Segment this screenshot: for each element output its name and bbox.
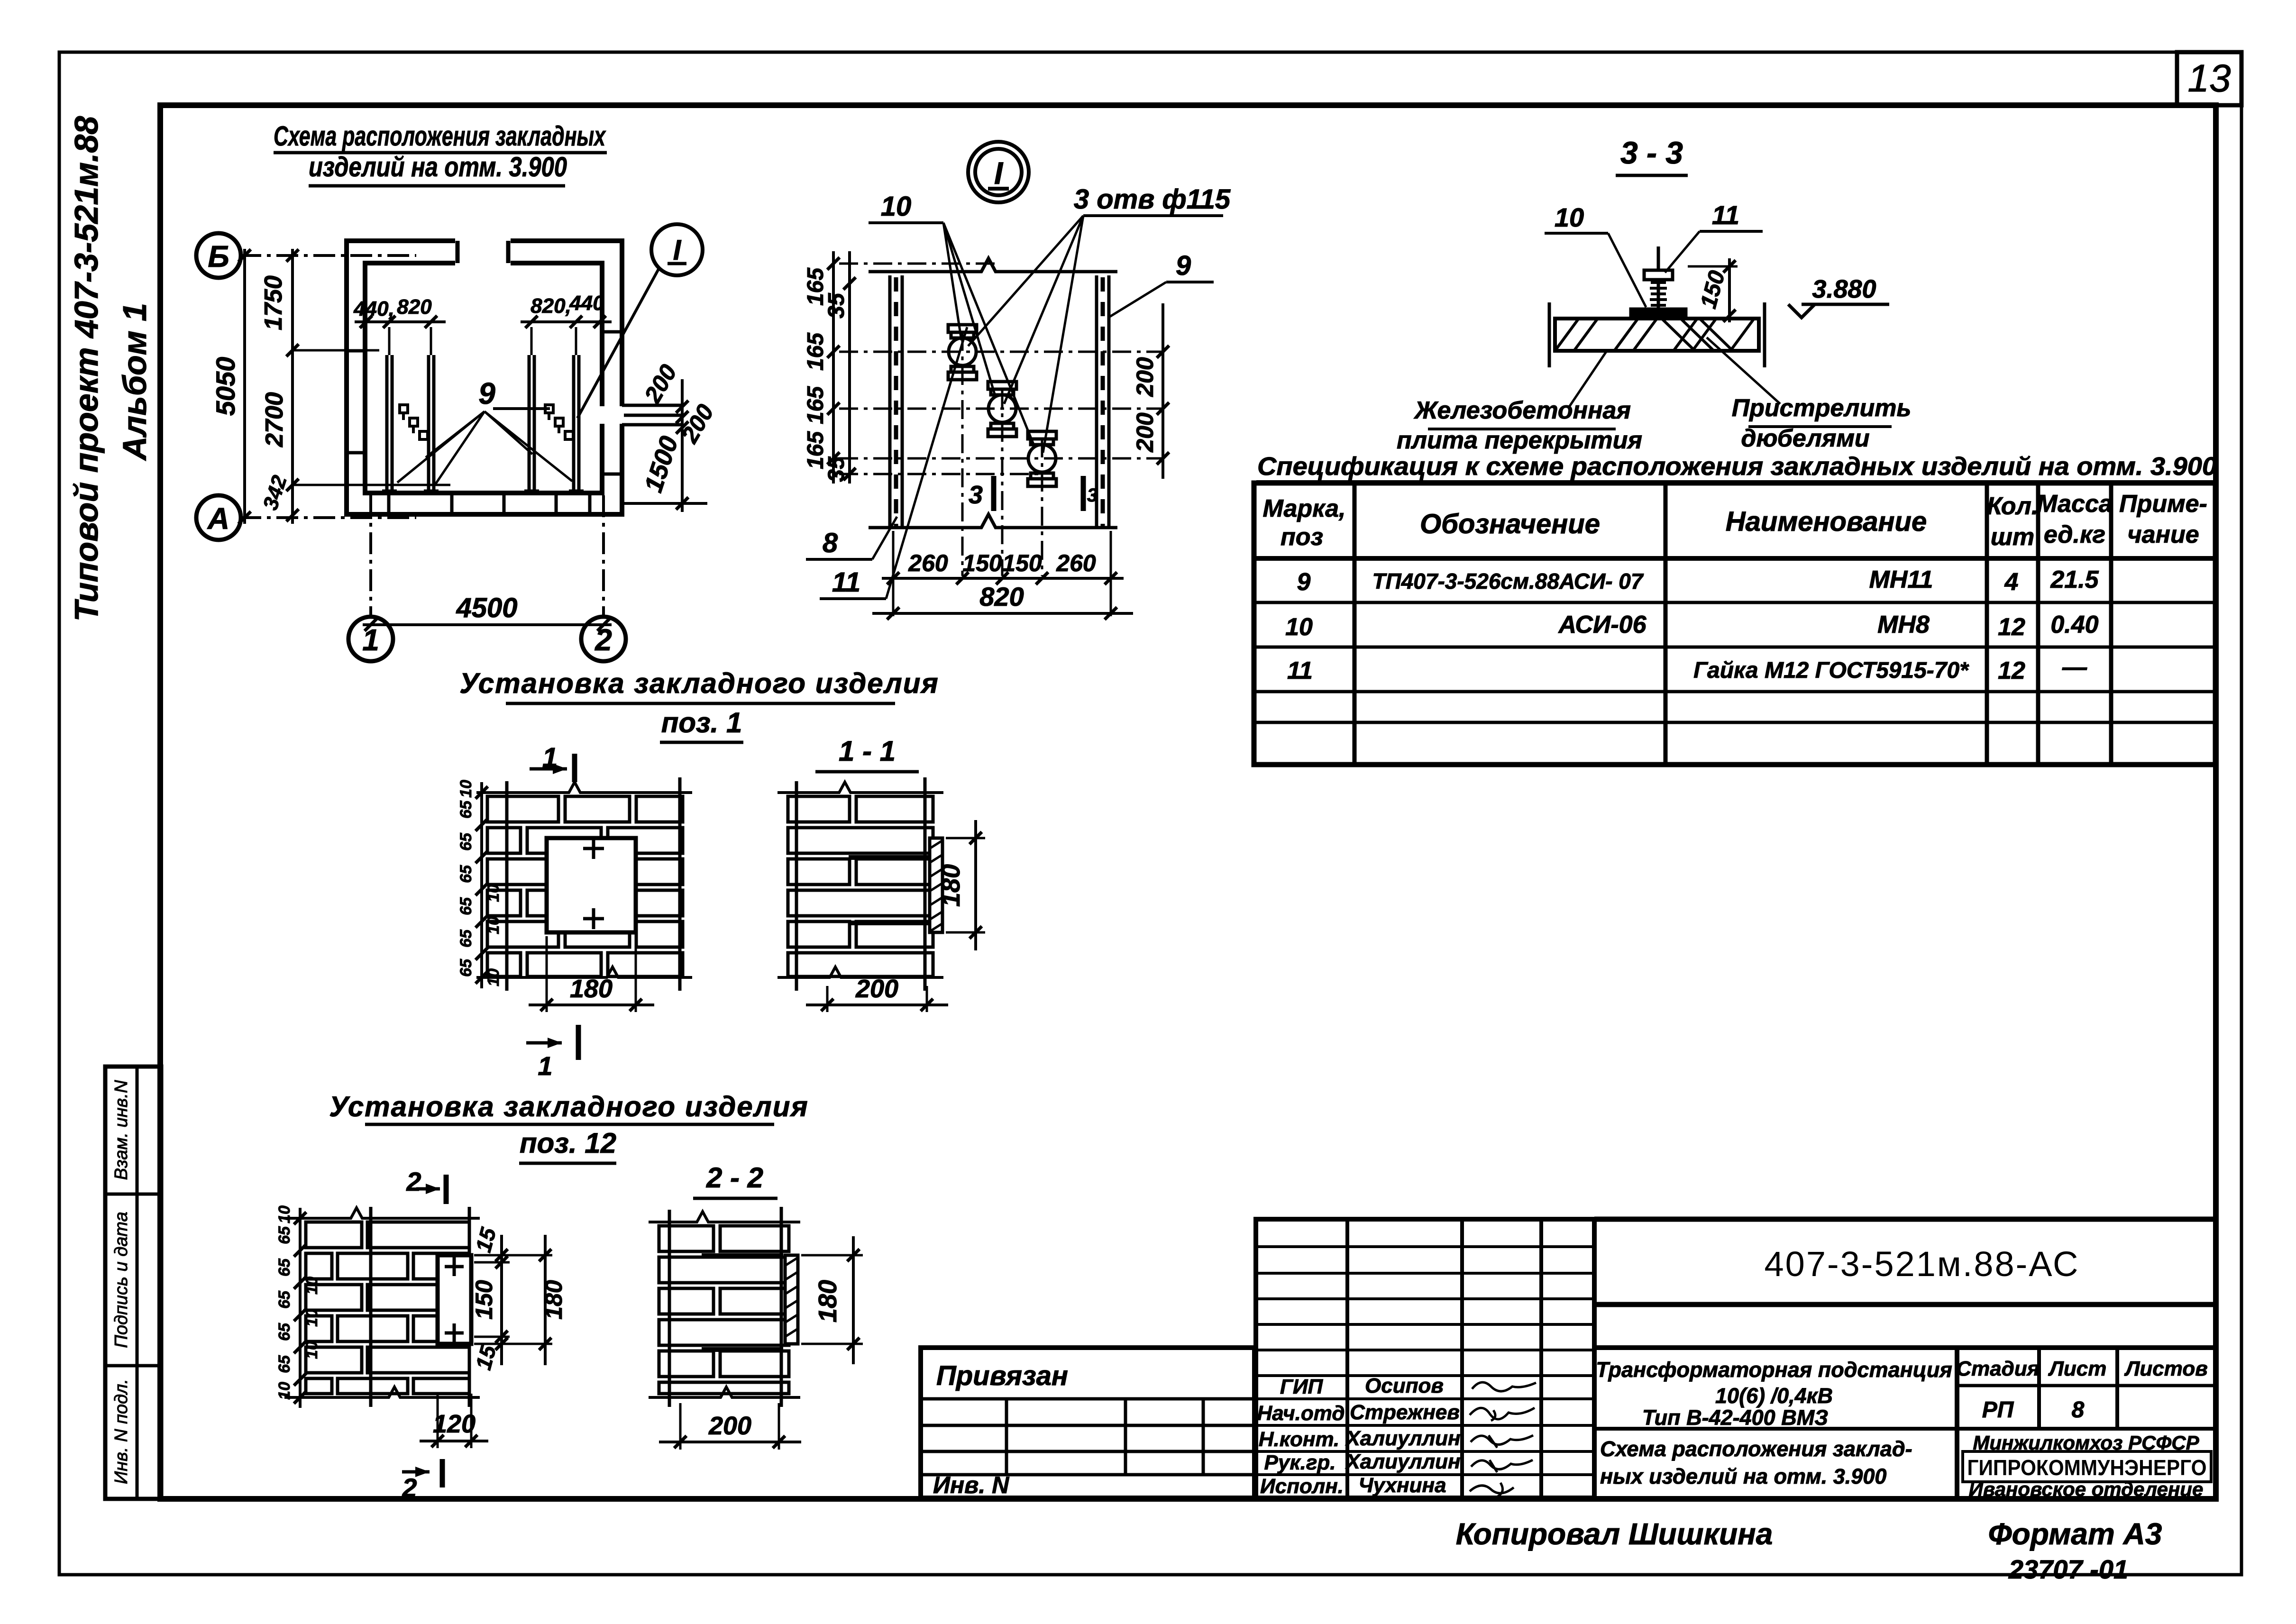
- label 11: [820, 327, 967, 599]
- section 3-3 title: [1616, 135, 1688, 175]
- svg-text:10: 10: [303, 1277, 321, 1295]
- spec row 11: [1287, 654, 2087, 684]
- title 2-2: [693, 1162, 778, 1198]
- svg-text:12: 12: [1998, 657, 2025, 684]
- callout 9: [1110, 250, 1214, 317]
- svg-text:Чухнина: Чухнина: [1358, 1474, 1446, 1497]
- svg-text:12: 12: [1998, 613, 2025, 641]
- svg-text:10: 10: [485, 968, 503, 986]
- axis line A: [239, 516, 416, 519]
- poz1 plan brick wall: [476, 782, 692, 977]
- axis circle 2: [581, 617, 626, 661]
- section mark 1 bottom: [526, 1025, 578, 1081]
- svg-text:820: 820: [397, 295, 432, 319]
- svg-text:Осипов: Осипов: [1365, 1374, 1444, 1397]
- detail I left wall strip: [890, 275, 902, 528]
- svg-text:10: 10: [485, 916, 503, 934]
- poz1 plate in section hatched: [930, 838, 942, 932]
- detail I title circle: [968, 142, 1029, 202]
- svg-text:65: 65: [457, 897, 475, 915]
- section mark 1 top: [530, 742, 575, 782]
- anchor bolt B2: [988, 382, 1016, 437]
- embedded plate P4: [569, 355, 584, 493]
- svg-text:8: 8: [823, 528, 838, 558]
- svg-text:Халиуллин: Халиуллин: [1345, 1450, 1460, 1473]
- svg-text:11: 11: [1287, 657, 1313, 684]
- svg-text:10: 10: [485, 884, 503, 902]
- section mark 2 top: [406, 1167, 446, 1204]
- svg-text:35: 35: [824, 456, 849, 482]
- privyazan box: [921, 1348, 1254, 1498]
- svg-text:Схема расположения заклад-: Схема расположения заклад-: [1600, 1437, 1912, 1461]
- svg-text:2700: 2700: [261, 392, 288, 447]
- anchor bolt B1: [948, 325, 977, 380]
- label pristrelit dyubelyami: [1707, 338, 1911, 452]
- poz12 section brick wall: [649, 1212, 800, 1397]
- svg-text:Спецификация к схеме расположе: Спецификация к схеме расположения заклад…: [1257, 452, 2217, 481]
- svg-text:Наименование: Наименование: [1726, 506, 1927, 537]
- plan inner wall: [365, 263, 602, 493]
- svg-text:2: 2: [402, 1473, 417, 1503]
- svg-text:Типовой проект 407-3-521м.88: Типовой проект 407-3-521м.88: [68, 116, 105, 622]
- svg-text:АСИ-06: АСИ-06: [1557, 611, 1647, 639]
- drawing frame: [160, 105, 2216, 1499]
- svg-text:3: 3: [1087, 485, 1098, 506]
- callout 3 otv f115: [968, 184, 1231, 453]
- detail I top slab line with break: [869, 258, 1117, 272]
- svg-text:5050: 5050: [210, 357, 240, 416]
- svg-text:Н.конт.: Н.конт.: [1259, 1428, 1340, 1451]
- svg-text:2 - 2: 2 - 2: [706, 1162, 763, 1194]
- svg-text:2: 2: [406, 1167, 421, 1196]
- svg-text:13: 13: [2187, 57, 2231, 100]
- section mark 3 right: [1083, 476, 1098, 511]
- svg-text:поз. 12: поз. 12: [520, 1127, 616, 1159]
- detail poz1 title: [459, 667, 939, 742]
- poz12 dim 180 vertical: [801, 1236, 863, 1364]
- svg-text:65: 65: [457, 800, 475, 819]
- dim 150 (3-3): [1688, 258, 1738, 322]
- svg-text:9: 9: [478, 376, 495, 411]
- svg-text:Рук.гр.: Рук.гр.: [1264, 1451, 1336, 1474]
- svg-text:180: 180: [540, 1280, 567, 1320]
- top wall opening: [455, 237, 511, 266]
- poz1 embedded plate: [547, 838, 636, 932]
- titleblock right section: [1594, 1219, 2216, 1500]
- svg-text:35: 35: [824, 292, 849, 319]
- svg-text:Тип В-42-400 ВМЗ: Тип В-42-400 ВМЗ: [1642, 1405, 1828, 1430]
- svg-text:Стадия: Стадия: [1956, 1357, 2039, 1380]
- dim 5050: [210, 249, 251, 524]
- dim 820 440 right: [521, 292, 612, 355]
- svg-text:Инв. N подл.: Инв. N подл.: [111, 1379, 131, 1484]
- spec table title: [1256, 452, 2217, 482]
- poz12 dim 120: [420, 1394, 488, 1448]
- svg-text:дюбелями: дюбелями: [1741, 425, 1869, 452]
- anchor squares right pair: [545, 405, 573, 439]
- svg-text:11: 11: [832, 567, 860, 598]
- svg-text:65: 65: [275, 1323, 293, 1341]
- svg-text:ГИПРОКОММУНЭНЕРГО: ГИПРОКОММУНЭНЕРГО: [1967, 1455, 2207, 1480]
- svg-text:Ивановское отделение: Ивановское отделение: [1969, 1478, 2204, 1500]
- axis line 2: [602, 495, 605, 615]
- axis circle B: [196, 233, 241, 278]
- poz12 left dim chain: [275, 1205, 321, 1408]
- spec table grid: [1254, 483, 2215, 765]
- svg-text:65: 65: [457, 832, 475, 851]
- detail I right wall strip: [1097, 275, 1109, 528]
- svg-text:Обозначение: Обозначение: [1420, 509, 1600, 539]
- svg-text:65: 65: [457, 865, 475, 883]
- svg-text:10: 10: [1555, 202, 1584, 232]
- poz1 dim 180: [529, 936, 654, 1012]
- label 9 with leaders: [397, 376, 572, 486]
- axis line B: [239, 254, 416, 257]
- svg-text:изделий на отм. 3.900: изделий на отм. 3.900: [309, 152, 567, 182]
- svg-text:10: 10: [303, 1341, 321, 1359]
- svg-text:Формат А3: Формат А3: [1988, 1517, 2162, 1551]
- svg-text:4500: 4500: [456, 593, 517, 623]
- svg-text:65: 65: [275, 1290, 293, 1309]
- svg-text:Пристрелить: Пристрелить: [1732, 394, 1912, 422]
- detail poz12 title: [329, 1091, 808, 1163]
- svg-text:65: 65: [275, 1258, 293, 1277]
- svg-text:Кол.: Кол.: [1987, 493, 2039, 520]
- svg-text:Гайка М12 ГОСТ5915-70*: Гайка М12 ГОСТ5915-70*: [1693, 658, 1969, 683]
- poz1 dim 180 vertical: [937, 820, 985, 950]
- svg-text:Железобетонная: Железобетонная: [1413, 397, 1631, 424]
- svg-text:8: 8: [2072, 1397, 2085, 1423]
- svg-text:Нач.отд: Нач.отд: [1257, 1402, 1345, 1425]
- svg-text:440,: 440,: [353, 297, 394, 320]
- right wall pipe opening: [599, 406, 625, 424]
- svg-text:65: 65: [275, 1226, 293, 1244]
- detail I dim 820: [872, 582, 1133, 620]
- detail callout circle I on plan: [577, 224, 703, 418]
- anchor bolt B3: [1028, 431, 1056, 486]
- right wall pipes: [622, 405, 681, 425]
- callout 11 (3-3): [1665, 200, 1763, 273]
- svg-text:Масса: Масса: [2037, 490, 2113, 518]
- svg-text:I: I: [673, 234, 682, 266]
- svg-text:3.880: 3.880: [1812, 275, 1876, 303]
- svg-text:А: А: [207, 502, 229, 536]
- svg-text:260: 260: [1056, 550, 1096, 576]
- svg-text:Приме-: Приме-: [2119, 490, 2207, 518]
- svg-text:1: 1: [538, 1051, 552, 1081]
- poz1 left dim chain: [457, 780, 503, 988]
- anchor squares left pair: [400, 405, 428, 439]
- svg-text:10: 10: [457, 780, 475, 798]
- svg-text:23707 -01: 23707 -01: [2008, 1554, 2128, 1584]
- svg-text:200: 200: [1132, 412, 1158, 453]
- detail I bottom dims 260 150 150 260: [882, 531, 1124, 616]
- bolt assembly (3-3): [1631, 246, 1686, 316]
- wall joint ticks: [347, 332, 622, 514]
- staff table: [1256, 1219, 1594, 1498]
- svg-text:200: 200: [855, 975, 898, 1003]
- callout 10: [869, 191, 1034, 447]
- svg-text:МН8: МН8: [1877, 611, 1930, 639]
- svg-text:11: 11: [1712, 200, 1739, 230]
- svg-text:ТП407-3-526см.88АСИ- 07: ТП407-3-526см.88АСИ- 07: [1372, 569, 1644, 593]
- left stamp block: [105, 1067, 161, 1499]
- svg-text:плита перекрытия: плита перекрытия: [1397, 427, 1642, 454]
- svg-text:165: 165: [803, 332, 828, 371]
- svg-text:180: 180: [937, 864, 965, 907]
- spec row 9: [1297, 566, 2099, 596]
- spec row 10: [1285, 611, 2099, 641]
- svg-text:150: 150: [471, 1280, 497, 1320]
- svg-text:Стрежнев: Стрежнев: [1350, 1401, 1460, 1424]
- svg-text:10: 10: [303, 1309, 321, 1327]
- svg-text:шт: шт: [1991, 523, 2034, 551]
- label zhelezobetonnaya plita: [1397, 352, 1642, 454]
- svg-text:1: 1: [362, 623, 379, 657]
- poz12 plate in section hatched: [785, 1255, 798, 1344]
- svg-text:чание: чание: [2127, 521, 2199, 548]
- poz12 dim 200: [659, 1403, 801, 1450]
- svg-text:поз. 1: поз. 1: [661, 707, 742, 739]
- svg-text:Листов: Листов: [2124, 1357, 2208, 1380]
- embedded plate P3: [524, 355, 539, 493]
- svg-text:Б: Б: [208, 239, 229, 274]
- embedded plate P1: [382, 355, 397, 493]
- spec table header: [1263, 490, 2207, 551]
- poz12 dims 15 150 15 180: [471, 1224, 567, 1372]
- plan outer wall: [347, 241, 622, 514]
- slab (3-3): [1549, 302, 1765, 367]
- svg-text:Подпись и дата: Подпись и дата: [111, 1212, 131, 1348]
- svg-text:150: 150: [962, 550, 1002, 576]
- svg-text:150: 150: [1002, 550, 1042, 576]
- poz12 plan brick wall: [284, 1208, 480, 1397]
- svg-text:I: I: [994, 155, 1004, 191]
- svg-text:Установка закладного изделия: Установка закладного изделия: [329, 1091, 808, 1122]
- dim 200 200 1500 right: [624, 360, 719, 512]
- poz12 embedded plate: [438, 1255, 471, 1344]
- svg-text:Халиуллин: Халиуллин: [1345, 1427, 1460, 1450]
- svg-text:РП: РП: [1982, 1397, 2014, 1423]
- svg-text:МН11: МН11: [1869, 566, 1933, 593]
- svg-text:820: 820: [979, 582, 1024, 611]
- svg-text:260: 260: [908, 550, 948, 576]
- dim chain 1750/2700/342: [259, 249, 450, 524]
- svg-text:1750: 1750: [260, 275, 287, 330]
- svg-text:ГИП: ГИП: [1280, 1375, 1324, 1398]
- elevation mark 3.880: [1788, 275, 1889, 318]
- svg-text:Взам. инв.N: Взам. инв.N: [111, 1080, 131, 1180]
- detail I left dim chain: [803, 251, 856, 484]
- svg-text:65: 65: [275, 1355, 293, 1373]
- svg-text:200: 200: [1132, 357, 1158, 397]
- svg-text:Установка закладного изделия: Установка закладного изделия: [459, 667, 939, 699]
- bolt axis lines: [839, 264, 1162, 576]
- svg-text:Альбом 1: Альбом 1: [116, 303, 153, 461]
- stadiya list listov: [2037, 1348, 2041, 1429]
- svg-text:Инв. N: Инв. N: [933, 1472, 1009, 1498]
- svg-text:—: —: [2062, 654, 2087, 681]
- detail I right dim 200 200: [1132, 303, 1169, 479]
- title 1-1: [815, 735, 919, 772]
- svg-text:1 - 1: 1 - 1: [839, 735, 896, 767]
- poz12 wall edge lines: [371, 1207, 469, 1407]
- svg-text:820,: 820,: [531, 294, 571, 318]
- svg-text:0.40: 0.40: [2050, 611, 2098, 639]
- svg-text:10: 10: [275, 1205, 293, 1223]
- svg-text:9: 9: [1176, 250, 1191, 281]
- svg-text:Копировал Шишкина: Копировал Шишкина: [1456, 1517, 1773, 1551]
- svg-text:21.5: 21.5: [2050, 566, 2099, 593]
- svg-text:Лист: Лист: [2048, 1357, 2107, 1380]
- svg-text:3 отв ф115: 3 отв ф115: [1074, 184, 1231, 215]
- dim 4500: [363, 593, 612, 631]
- poz1 dim 200: [806, 975, 948, 1012]
- axis circle 1: [348, 617, 393, 661]
- label 8: [806, 517, 897, 559]
- svg-text:65: 65: [457, 958, 475, 977]
- section mark 2 bottom: [402, 1459, 442, 1503]
- detail I bottom slab line with break: [869, 514, 1117, 528]
- svg-text:200: 200: [708, 1412, 751, 1440]
- axis circle A: [196, 495, 241, 540]
- svg-text:3 - 3: 3 - 3: [1620, 135, 1683, 170]
- svg-text:10: 10: [275, 1382, 293, 1400]
- callout 10 (3-3): [1545, 202, 1646, 307]
- dim 440 820 left: [353, 295, 446, 355]
- signatures: [1470, 1382, 1536, 1497]
- axis line 1: [369, 495, 372, 615]
- page number box: [2177, 52, 2241, 105]
- svg-text:3: 3: [969, 481, 983, 509]
- poz12 section edge lines: [669, 1207, 781, 1407]
- svg-text:10: 10: [1285, 613, 1313, 641]
- svg-text:ед.кг: ед.кг: [2044, 521, 2105, 548]
- svg-text:9: 9: [1297, 568, 1311, 596]
- poz1 section brick wall: [778, 782, 943, 977]
- svg-text:Исполн.: Исполн.: [1260, 1475, 1344, 1498]
- svg-text:165: 165: [803, 386, 828, 424]
- svg-text:Схема расположения закладных: Схема расположения закладных: [274, 121, 606, 152]
- svg-text:ных изделий на отм. 3.900: ных изделий на отм. 3.900: [1600, 1464, 1886, 1488]
- svg-text:65: 65: [457, 929, 475, 948]
- svg-text:4: 4: [2004, 568, 2019, 596]
- svg-text:407-3-521м.88-АС: 407-3-521м.88-АС: [1765, 1244, 2080, 1284]
- svg-text:Марка,: Марка,: [1263, 495, 1346, 522]
- poz1 wall edge lines: [507, 777, 680, 991]
- svg-text:180: 180: [570, 975, 613, 1003]
- section mark 3 left: [969, 476, 994, 511]
- svg-text:Трансформаторная подстанция: Трансформаторная подстанция: [1596, 1358, 1952, 1382]
- poz1 section edge lines: [796, 777, 925, 991]
- svg-text:Привязан: Привязан: [936, 1360, 1068, 1391]
- svg-text:10(6) /0,4кВ: 10(6) /0,4кВ: [1715, 1384, 1833, 1408]
- embedded plate P2: [424, 355, 439, 493]
- svg-text:120: 120: [433, 1410, 476, 1438]
- svg-text:2: 2: [595, 623, 612, 657]
- svg-text:10: 10: [881, 191, 912, 222]
- svg-text:поз: поз: [1281, 523, 1323, 551]
- svg-text:180: 180: [814, 1280, 842, 1323]
- svg-text:440: 440: [569, 292, 604, 315]
